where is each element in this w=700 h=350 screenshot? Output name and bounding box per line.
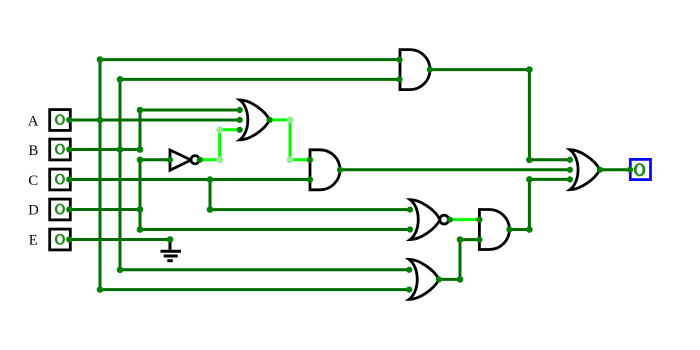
svg-text:E: E xyxy=(29,233,38,249)
svg-text:A: A xyxy=(28,113,39,129)
svg-text:D: D xyxy=(28,203,39,219)
svg-text:C: C xyxy=(28,173,38,189)
svg-text:B: B xyxy=(29,143,39,159)
